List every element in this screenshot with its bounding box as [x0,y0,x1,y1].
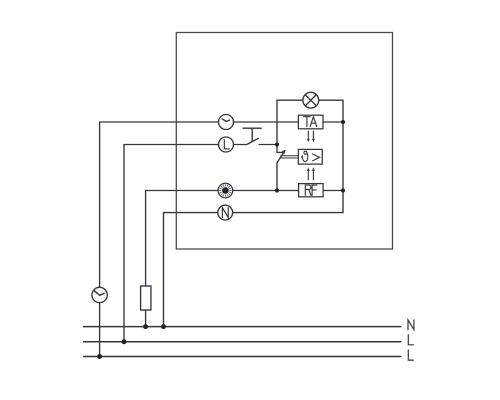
bus label L (bottom) [408,350,413,360]
N terminal [218,205,233,220]
device outline box [176,33,392,250]
TA box [298,115,323,129]
TA to right rail [323,121,343,123]
wire N terminal to N bus [164,213,218,327]
wire sensor terminal to load resistor to N bus [146,191,219,327]
push button contact after L terminal [234,144,247,146]
letters TA [304,117,311,127]
wire sensor terminal to RF row [233,190,299,192]
mechanical link to thermostat [280,156,298,158]
theta symbol [304,151,307,154]
L bus line (bottom) [84,356,401,358]
lamp symbol [303,92,319,108]
L bus line (middle) [84,341,401,343]
bus label L (middle) [408,335,413,345]
letter L [224,140,229,149]
greater-than symbol [313,154,320,161]
wire N terminal to right rail [233,100,343,212]
light sensor terminal [218,183,233,198]
letter N [222,208,228,218]
wire L terminal to middle L bus [124,145,219,342]
RF to right rail [323,190,343,192]
push button actuator [243,128,261,141]
bus label N [408,320,414,330]
load resistor [141,286,151,310]
L terminal [219,137,234,152]
lamp row to left rail [277,100,303,144]
letters RF [305,185,311,195]
N bus line [84,326,401,328]
thermostat box [298,149,322,164]
down arrows TA to thermostat [308,131,313,139]
up arrows RF to thermostat [308,171,313,180]
wire clock terminal to external timer to bottom L bus [100,122,219,357]
RF box [299,184,324,197]
relay contact in left rail [277,145,284,153]
wire clock terminal to TA [234,121,299,123]
clock-input terminal [219,115,234,130]
external time switch symbol [92,287,107,302]
